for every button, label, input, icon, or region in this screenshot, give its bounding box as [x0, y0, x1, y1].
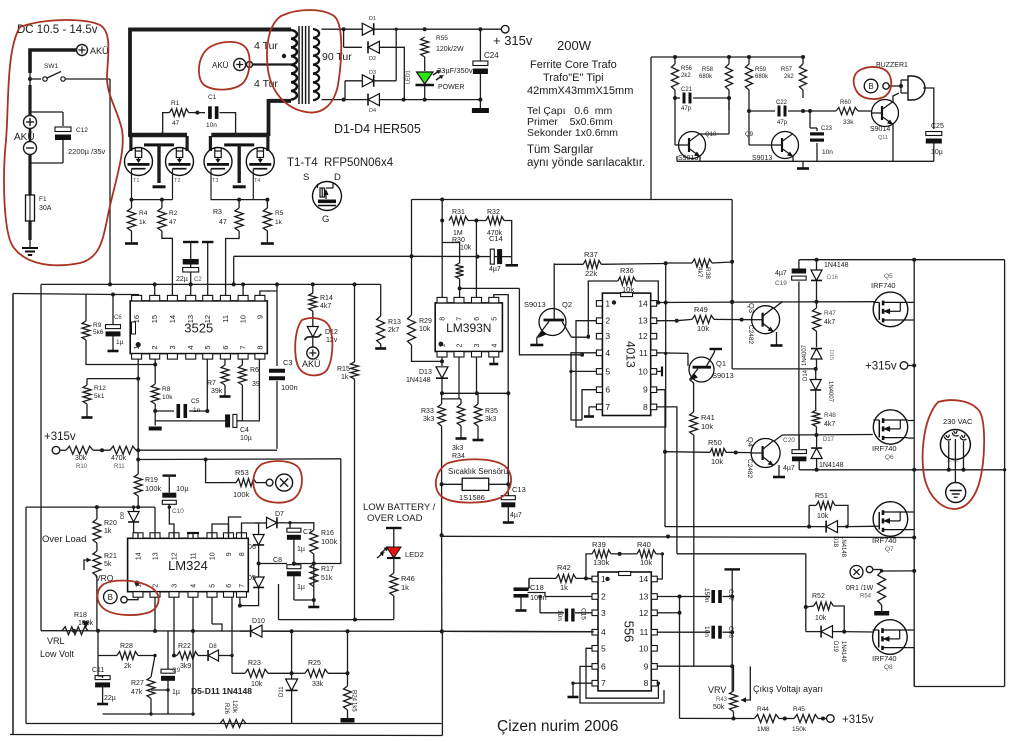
- wire pin9 drop: [657, 390, 665, 527]
- ground C8R17: [313, 600, 315, 607]
- svg-text:3: 3: [605, 331, 610, 341]
- wire R10 R11: [93, 449, 110, 451]
- svg-text:11: 11: [639, 348, 648, 358]
- svg-text:10k: 10k: [817, 513, 829, 520]
- svg-text:LM324: LM324: [168, 558, 208, 573]
- wire C3 down: [276, 381, 278, 449]
- svg-text:R55: R55: [436, 35, 448, 42]
- wire pin9 jog to C3: [260, 291, 277, 296]
- wire C18 bottom: [520, 597, 522, 605]
- wire R19 bottom: [137, 496, 139, 507]
- wire R43 col: [733, 666, 735, 691]
- capacitor C5: [155, 410, 174, 412]
- svg-text:10k: 10k: [460, 245, 472, 252]
- transistor Q11: [872, 100, 899, 127]
- wire pin13 C2 line: [190, 242, 192, 296]
- svg-text:13: 13: [639, 592, 649, 602]
- svg-text:R18: R18: [74, 612, 87, 619]
- resistor R22: [174, 655, 177, 657]
- svg-text:R16: R16: [321, 530, 334, 537]
- svg-text:R38: R38: [704, 267, 711, 279]
- svg-text:C11: C11: [92, 667, 104, 674]
- diode D19: [821, 626, 832, 638]
- red loop VRO B: [97, 581, 158, 616]
- svg-text:47: 47: [219, 219, 227, 226]
- svg-text:C3: C3: [283, 358, 293, 367]
- svg-text:33k: 33k: [312, 681, 324, 688]
- resistor R50: [665, 451, 710, 454]
- mosfet Q8 IRF740: [873, 620, 908, 655]
- resistor R31: [449, 217, 468, 225]
- capacitor C2 22u: [183, 241, 198, 243]
- wire R21 to pin1: [96, 576, 98, 631]
- wire D3 cathode: [374, 80, 397, 82]
- svg-text:SW1: SW1: [44, 63, 58, 70]
- wire R1 left leg: [163, 113, 170, 133]
- svg-text:R58: R58: [702, 67, 714, 73]
- capacitor C19 4u7: [792, 269, 807, 274]
- svg-text:VRV: VRV: [708, 685, 726, 695]
- capacitor C6: [112, 295, 114, 325]
- wire pin10 tie: [657, 370, 662, 372]
- svg-text:1N4148: 1N4148: [840, 536, 846, 558]
- wire pin12 right: [657, 612, 672, 614]
- capacitor C12: [55, 127, 71, 132]
- svg-text:+ 315v: + 315v: [493, 33, 533, 48]
- wire buzzer top rail: [651, 56, 803, 58]
- wire R8 bottom node: [154, 404, 156, 426]
- wire R30 jog: [442, 221, 459, 264]
- svg-text:7: 7: [605, 402, 610, 412]
- socket earth circle: [946, 483, 966, 503]
- svg-text:DC 10.5 - 14.5v: DC 10.5 - 14.5v: [17, 24, 98, 36]
- resistor R3: [238, 200, 240, 208]
- svg-text:C24: C24: [484, 51, 499, 60]
- capacitor C11 22u: [95, 676, 110, 680]
- wire thick winding bottom: [269, 99, 292, 103]
- diode D4: [368, 94, 379, 106]
- wire C19 bottom long: [798, 282, 800, 450]
- svg-text:2k2: 2k2: [784, 74, 794, 80]
- svg-text:4: 4: [491, 344, 498, 348]
- wire R53 to term: [256, 482, 266, 484]
- svg-text:4k7: 4k7: [824, 319, 835, 326]
- wire Q8 drain hook: [907, 629, 914, 631]
- diode D16: [811, 270, 822, 280]
- wire R27 col: [151, 656, 155, 678]
- svg-text:D5-D11 1N4148: D5-D11 1N4148: [191, 686, 252, 696]
- wire y199 rail: [412, 199, 652, 201]
- svg-text:C6: C6: [114, 315, 122, 321]
- svg-text:10k: 10k: [162, 394, 173, 401]
- transistor Q3: [752, 306, 780, 334]
- wire pin2 down: [458, 357, 460, 399]
- svg-text:14: 14: [136, 552, 143, 560]
- svg-text:6: 6: [605, 385, 610, 395]
- capacitor C18: [514, 587, 529, 591]
- svg-text:39k: 39k: [211, 388, 223, 395]
- wire pin13 right: [657, 596, 679, 598]
- IC U2 LM393N: [435, 303, 502, 352]
- svg-text:D10: D10: [252, 618, 265, 625]
- diode D1: [362, 23, 373, 35]
- wire R43 bottom: [733, 712, 735, 719]
- wire y257 left drop: [233, 256, 235, 284]
- svg-text:1N4007: 1N4007: [802, 344, 808, 366]
- ground R35: [477, 426, 479, 440]
- wire R29 to pin1: [412, 345, 443, 361]
- svg-text:C23: C23: [821, 126, 833, 132]
- capacitor C4: [155, 420, 227, 422]
- resistor R27: [147, 677, 155, 699]
- svg-text:12: 12: [639, 608, 649, 618]
- svg-text:13: 13: [153, 552, 160, 560]
- wire D11 col: [291, 631, 293, 679]
- svg-text:14: 14: [638, 298, 648, 308]
- wire R45 right: [818, 718, 826, 720]
- resistor R46: [390, 573, 398, 596]
- svg-text:10k: 10k: [640, 558, 652, 567]
- svg-text:22µ: 22µ: [104, 695, 116, 702]
- svg-text:1N4007: 1N4007: [827, 381, 833, 403]
- svg-text:R49: R49: [694, 305, 708, 314]
- wire pin10 up: [212, 524, 229, 538]
- svg-text:R40: R40: [637, 540, 651, 549]
- svg-text:D16: D16: [827, 275, 839, 281]
- wire sensor right: [507, 393, 509, 496]
- svg-text:R39: R39: [592, 540, 606, 549]
- svg-text:C12: C12: [76, 127, 88, 134]
- capacitor C3: [269, 369, 285, 373]
- wire R42 left: [529, 577, 556, 579]
- wire C12 bottom: [62, 140, 64, 163]
- wire D19 to Q8: [844, 631, 873, 633]
- resistor R19: [134, 474, 142, 496]
- IC U1 pin1 dot: [136, 342, 141, 347]
- resistor R38: [692, 259, 712, 267]
- svg-text:3: 3: [172, 584, 179, 588]
- wire R32 right down: [504, 221, 512, 257]
- svg-text:T1: T1: [133, 178, 139, 184]
- svg-text:T4: T4: [254, 178, 260, 184]
- wire left drop x41: [40, 284, 42, 630]
- IC U3 pin1 dot: [612, 300, 616, 304]
- wire fuse to ground: [28, 221, 31, 240]
- wire buzzer drop x732: [731, 200, 733, 369]
- wire R15 drop: [354, 284, 356, 362]
- svg-text:R23: R23: [248, 660, 261, 667]
- svg-text:1N4148: 1N4148: [824, 262, 849, 269]
- wire gate line Q6: [782, 434, 873, 437]
- resistor R51 loop: [808, 505, 810, 526]
- svg-text:9: 9: [644, 661, 649, 671]
- svg-text:120k/2W: 120k/2W: [436, 46, 464, 53]
- wire R3 to pin11: [226, 231, 240, 296]
- wire thick battery positive top: [30, 50, 76, 73]
- svg-text:5: 5: [605, 366, 610, 376]
- wire pin8 up: [441, 243, 443, 298]
- wire R16 R17 node: [313, 554, 315, 587]
- buzzer symbol: [908, 76, 925, 100]
- red loop buzzer B: [854, 67, 892, 99]
- wire pin5 down: [206, 359, 208, 411]
- wire pin12 T line: [207, 242, 209, 296]
- svg-text:47k: 47k: [131, 689, 143, 696]
- svg-text:22k: 22k: [585, 269, 597, 278]
- svg-text:2k: 2k: [124, 663, 132, 670]
- svg-text:6: 6: [226, 584, 233, 588]
- wire x1004 vertical: [1004, 260, 1006, 470]
- wire zero rail: [425, 99, 481, 101]
- svg-text:15: 15: [150, 315, 159, 323]
- wire R33 down sensor: [441, 426, 443, 484]
- svg-text:1µ: 1µ: [172, 689, 180, 696]
- wire R31 R32 node: [468, 220, 486, 222]
- svg-text:D4: D4: [369, 108, 376, 114]
- wire bottom right bus: [914, 686, 1004, 688]
- wire Q3 collector diag: [774, 302, 783, 309]
- svg-text:3k9: 3k9: [180, 663, 191, 670]
- wire R36 left: [588, 281, 618, 336]
- wire R31 drop: [441, 200, 443, 221]
- transistor Q4: [751, 439, 780, 468]
- svg-text:C4: C4: [240, 427, 249, 434]
- capacitor C24: [479, 29, 481, 61]
- svg-text:2: 2: [150, 345, 159, 349]
- svg-text:+315v: +315v: [842, 714, 874, 726]
- svg-text:C2482: C2482: [747, 325, 754, 345]
- wire pin9 up: [229, 517, 242, 538]
- svg-text:100k: 100k: [145, 484, 162, 493]
- wire y459 rail: [138, 458, 341, 461]
- wire D9 to LM324: [134, 532, 138, 534]
- svg-text:D11: D11: [279, 686, 285, 697]
- capacitor C8 1u: [287, 565, 301, 569]
- svg-text:S9014: S9014: [870, 126, 890, 133]
- svg-text:1S1586: 1S1586: [459, 493, 485, 502]
- svg-text:R32: R32: [487, 209, 500, 216]
- wire R44 R45: [779, 718, 794, 720]
- svg-text:R47: R47: [824, 310, 836, 317]
- svg-text:1µ: 1µ: [297, 546, 305, 553]
- wire R53 line: [220, 482, 236, 484]
- svg-text:10: 10: [239, 315, 248, 323]
- wire bridge to y199: [411, 200, 413, 257]
- mosfet Q7 IRF740: [873, 502, 908, 537]
- legend mosfet symbol: [313, 182, 342, 211]
- resistor R48: [812, 410, 820, 427]
- terminal +315v top: [501, 25, 509, 33]
- svg-text:5: 5: [210, 584, 217, 588]
- svg-text:1k: 1k: [104, 528, 112, 535]
- svg-text:90 Tur: 90 Tur: [322, 51, 352, 63]
- wire Q6 source hook: [908, 437, 914, 439]
- svg-text:R19: R19: [145, 477, 158, 484]
- wire LED1 down: [424, 85, 426, 100]
- svg-text:39: 39: [252, 381, 260, 388]
- svg-text:1N4148: 1N4148: [819, 462, 844, 469]
- wire Q2 collector: [553, 264, 555, 319]
- svg-text:AKÜ: AKÜ: [90, 46, 109, 56]
- svg-text:8: 8: [255, 345, 264, 349]
- svg-text:C10: C10: [172, 508, 184, 515]
- wire rail end to R13: [380, 284, 382, 316]
- wire Q8 source hook: [907, 647, 914, 649]
- transistor T1 T2 pair: [129, 136, 132, 151]
- svg-text:4µ7: 4µ7: [783, 465, 795, 472]
- wire 556 bracket: [586, 648, 658, 698]
- svg-text:1N4148: 1N4148: [406, 377, 431, 384]
- resistor R55: [421, 37, 429, 57]
- wire C25 down: [933, 142, 935, 161]
- IC U2 pin1 dot: [439, 342, 444, 347]
- wire y714 seg: [103, 713, 193, 715]
- wire pin6 bracket: [580, 666, 664, 703]
- terminal AKU mid: [307, 347, 319, 359]
- svg-text:8: 8: [239, 552, 246, 556]
- svg-text:4k7: 4k7: [320, 303, 331, 310]
- svg-text:R56: R56: [681, 66, 693, 72]
- svg-text:1k: 1k: [560, 583, 568, 592]
- diode D15: [811, 349, 822, 359]
- wire gate rail 1: [131, 199, 173, 201]
- svg-text:D19: D19: [832, 641, 838, 653]
- resistor R14: [312, 284, 314, 293]
- pot R21 5k: [93, 551, 101, 576]
- svg-text:LED2: LED2: [405, 550, 424, 559]
- wire Q10 emitter down: [699, 156, 701, 161]
- transformer secondary winding: [313, 29, 319, 38]
- svg-text:4: 4: [601, 627, 606, 637]
- wire x205 down: [206, 460, 220, 483]
- svg-text:R1: R1: [171, 100, 180, 107]
- capacitor C16: [711, 626, 715, 639]
- svg-text:R35: R35: [485, 408, 498, 415]
- svg-text:2: 2: [601, 592, 606, 602]
- svg-text:R14: R14: [320, 295, 333, 302]
- svg-text:B: B: [108, 593, 113, 602]
- mosfet Q6 IRF740: [873, 410, 907, 444]
- resistor R1: [169, 109, 188, 117]
- wire pin14 stub: [657, 302, 659, 304]
- transformer primary winding: [291, 30, 297, 39]
- ground Q4: [778, 465, 780, 477]
- svg-text:IRF740: IRF740: [871, 281, 896, 290]
- red loop battery area: [4, 20, 123, 265]
- svg-text:D6: D6: [247, 544, 256, 551]
- capacitor C17: [711, 590, 715, 603]
- svg-text:R8: R8: [162, 386, 171, 393]
- circle B VRO: [104, 590, 118, 604]
- svg-text:S: S: [303, 172, 309, 183]
- battery terminal +: [24, 116, 37, 129]
- wire x732 to D15 node: [732, 368, 816, 370]
- svg-text:C1: C1: [208, 94, 217, 101]
- svg-text:1M: 1M: [453, 230, 463, 237]
- svg-text:7: 7: [239, 345, 248, 349]
- wire center tap to winding: [253, 63, 292, 65]
- svg-text:5: 5: [203, 345, 212, 349]
- svg-text:IRF740: IRF740: [872, 444, 897, 453]
- wire R4 ground: [131, 231, 133, 240]
- svg-text:8: 8: [644, 678, 649, 688]
- svg-text:C18: C18: [530, 583, 544, 592]
- wire buzzer left drop: [651, 57, 732, 200]
- wire C8 R17 join: [294, 599, 314, 601]
- wire buzzer bottom rail: [677, 160, 934, 162]
- svg-text:680k: 680k: [755, 74, 769, 80]
- svg-text:33µF/350v: 33µF/350v: [437, 66, 473, 75]
- zener D12: [307, 327, 318, 337]
- svg-text:120k: 120k: [231, 700, 237, 714]
- resistor R40: [637, 550, 656, 558]
- wire R23 R25 link: [292, 672, 305, 674]
- svg-text:10µ: 10µ: [176, 484, 189, 493]
- wire switch to right rail: [65, 78, 110, 80]
- transistor T3 T4 pair: [209, 136, 212, 151]
- wire Q6 drain hook: [908, 420, 914, 422]
- resistor R15: [351, 362, 359, 379]
- wire D2 anode to neg: [379, 47, 404, 99]
- svg-text:10µ: 10µ: [931, 149, 943, 156]
- ground bar R5: [266, 240, 268, 244]
- svg-text:Çizen nurim 2006: Çizen nurim 2006: [497, 718, 618, 735]
- wire pin5 up: [494, 295, 508, 394]
- svg-text:10n: 10n: [206, 122, 217, 129]
- ground R54: [881, 605, 883, 611]
- resistor R57: [802, 57, 804, 64]
- resistor R54: [878, 571, 886, 605]
- IC U5 pin1 dot: [605, 577, 609, 581]
- resistor R13: [377, 316, 385, 344]
- wire C19 top: [798, 260, 800, 269]
- svg-text:47p: 47p: [681, 106, 692, 112]
- resistor R49: [677, 319, 692, 320]
- svg-text:R20: R20: [104, 520, 117, 527]
- resistor R26: [220, 720, 246, 728]
- svg-text:OVER LOAD: OVER LOAD: [367, 513, 423, 524]
- svg-text:10k: 10k: [815, 615, 827, 622]
- capacitor C15: [565, 609, 568, 622]
- wire battery to C12 top: [30, 111, 63, 113]
- wire C15 wires: [540, 612, 564, 614]
- wire x914 vertical: [913, 260, 915, 470]
- red loop AKU D12: [295, 318, 332, 375]
- wire y470 rail: [799, 469, 1004, 471]
- wire R48 bottom: [815, 427, 817, 435]
- svg-text:D14: D14: [803, 369, 809, 381]
- svg-text:D3: D3: [369, 70, 376, 76]
- ground R13: [380, 344, 382, 349]
- ground pin4: [493, 357, 495, 364]
- svg-text:R22: R22: [178, 643, 191, 650]
- wire R14 to D12: [312, 311, 314, 326]
- svg-text:R2: R2: [169, 210, 178, 217]
- resistor R41: [690, 412, 698, 435]
- ground C6: [112, 336, 114, 351]
- resistor R4: [131, 200, 133, 208]
- wire pin4 left long: [442, 630, 594, 632]
- svg-text:47: 47: [169, 219, 177, 226]
- resistor R30: [456, 263, 464, 279]
- capacitor C10 10u: [163, 474, 177, 476]
- svg-text:AKÜ: AKÜ: [302, 359, 321, 369]
- wire C10 to pin12: [173, 533, 175, 538]
- wire thick right down: [267, 99, 271, 136]
- wire thick drain bus T3 T4: [211, 133, 268, 138]
- wire R12 branch: [87, 378, 138, 380]
- svg-text:10k: 10k: [419, 326, 431, 333]
